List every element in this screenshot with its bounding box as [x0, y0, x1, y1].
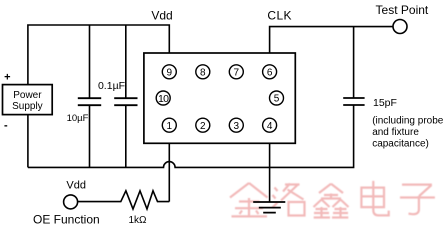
svg-text:15pF: 15pF — [373, 97, 397, 109]
svg-text:5: 5 — [274, 94, 280, 105]
svg-text:and fixture: and fixture — [372, 127, 419, 138]
svg-text:(including probe: (including probe — [372, 115, 444, 126]
svg-text:1: 1 — [167, 121, 173, 132]
svg-text:1kΩ: 1kΩ — [128, 215, 147, 226]
svg-text:2: 2 — [200, 121, 206, 132]
svg-text:10µF: 10µF — [67, 113, 89, 124]
svg-text:6: 6 — [267, 67, 273, 78]
svg-text:-: - — [4, 120, 8, 132]
svg-text:Test Point: Test Point — [376, 3, 429, 17]
svg-text:0.1µF: 0.1µF — [98, 80, 125, 92]
svg-text:3: 3 — [234, 121, 240, 132]
svg-text:capacitance): capacitance) — [372, 139, 429, 150]
svg-text:Vdd: Vdd — [151, 9, 172, 23]
svg-text:Supply: Supply — [12, 101, 43, 112]
svg-text:+: + — [4, 72, 10, 84]
svg-text:CLK: CLK — [267, 9, 292, 23]
svg-text:8: 8 — [200, 67, 206, 78]
svg-text:10: 10 — [158, 93, 169, 105]
svg-text:Vdd: Vdd — [66, 179, 86, 191]
svg-text:OE Function: OE Function — [33, 212, 100, 226]
svg-text:7: 7 — [234, 67, 240, 78]
svg-text:9: 9 — [167, 67, 173, 78]
svg-text:4: 4 — [267, 121, 273, 132]
svg-text:Power: Power — [13, 90, 42, 101]
